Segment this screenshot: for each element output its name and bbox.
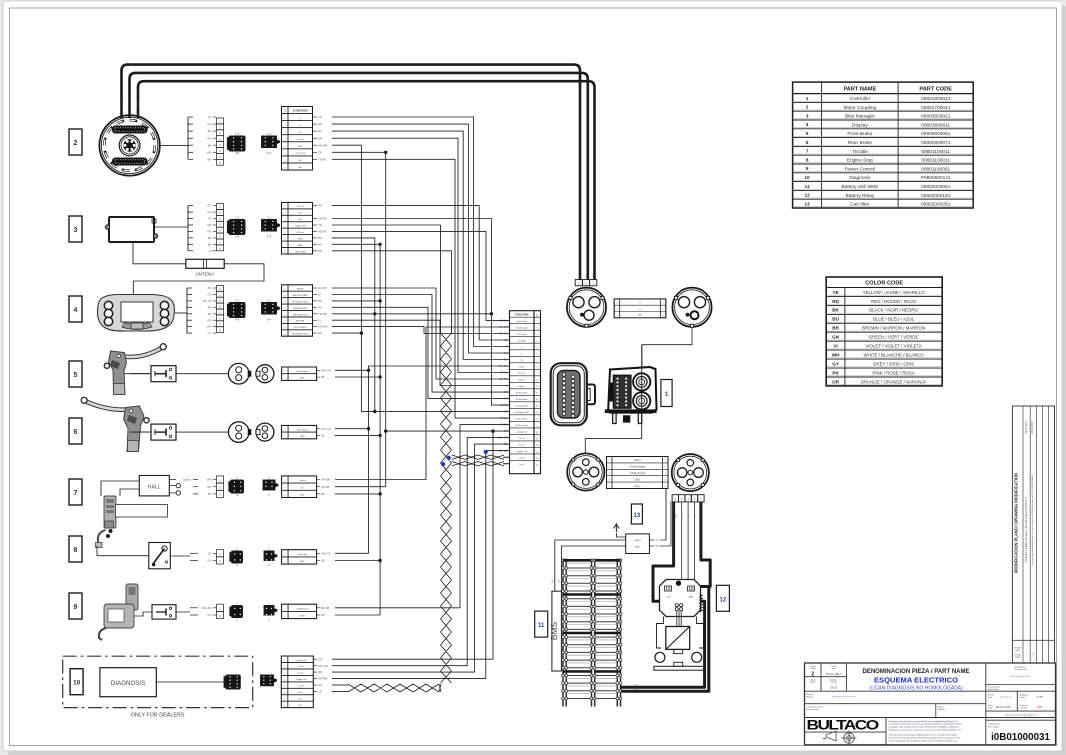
svg-text:Brake: Brake	[519, 367, 525, 369]
svg-text:4: 4	[74, 307, 78, 314]
item box 2	[69, 129, 82, 155]
svg-text:+OUT: +OUT	[666, 597, 672, 599]
connector 3B (8-pin male)	[262, 220, 280, 232]
wire BK item4 row8	[332, 332, 361, 334]
svg-text:OR: OR	[318, 136, 322, 140]
svg-text:+BAT: +BAT	[688, 596, 694, 599]
svg-text:BLUE / BLEU / AZUL: BLUE / BLEU / AZUL	[873, 317, 915, 322]
svg-text:N/C: N/C	[298, 160, 302, 162]
svg-text:18: 18	[536, 432, 538, 434]
svg-text:GN: GN	[207, 559, 211, 563]
svg-text:P0806500141: P0806500141	[921, 175, 951, 181]
svg-text:00802000061: 00802000061	[921, 184, 951, 190]
function table item 9	[282, 604, 317, 618]
svg-text:4: 4	[806, 122, 809, 127]
svg-text:YE: YE	[833, 290, 839, 295]
svg-text:GN: GN	[688, 514, 690, 518]
can filter wires left loop	[555, 540, 626, 591]
svg-text:00801700041: 00801700041	[921, 105, 951, 111]
wire color labels item 7	[317, 479, 320, 481]
svg-text:Out 66V: Out 66V	[518, 340, 526, 343]
svg-text:12: 12	[805, 193, 811, 198]
svg-text:GND: GND	[300, 495, 305, 497]
svg-text:OR-BK: OR-BK	[500, 372, 508, 375]
svg-text:GND: GND	[300, 616, 305, 618]
svg-text:12: 12	[720, 597, 727, 603]
parts table	[793, 82, 974, 208]
svg-text:Speed: Speed	[519, 380, 525, 382]
wire arrow to filter	[616, 533, 625, 537]
svg-text:BATTERY STATE: BATTERY STATE	[293, 294, 309, 297]
controller port 2	[633, 392, 650, 409]
svg-text:1: 1	[284, 371, 285, 373]
item box 10	[70, 669, 83, 695]
wire color labels item 8	[317, 552, 320, 554]
svg-text:U: U	[121, 103, 124, 105]
svg-text:2: 2	[284, 667, 285, 669]
wire BK bus3 item3	[332, 244, 380, 615]
title block	[805, 663, 1056, 745]
svg-text:COLOR CODE: COLOR CODE	[865, 281, 903, 287]
svg-text:Can H: Can H	[634, 460, 641, 462]
svg-text:3: 3	[665, 473, 666, 475]
svg-text:GN: GN	[504, 456, 508, 459]
svg-text:8: 8	[284, 334, 285, 336]
svg-text:YE-RD: YE-RD	[318, 217, 327, 221]
svg-text:PART NAME: PART NAME	[843, 86, 876, 92]
round connector battery B (5-pin)	[672, 454, 709, 491]
svg-text:Part number: Part number	[988, 725, 999, 728]
item box 9	[69, 593, 82, 619]
wire front brake	[335, 369, 369, 371]
function table item 4	[282, 285, 313, 336]
svg-text:Battery State: Battery State	[516, 392, 528, 395]
svg-text:Can H: Can H	[519, 458, 525, 460]
svg-text:BU-RD: BU-RD	[318, 286, 327, 290]
svg-text:2: 2	[284, 488, 285, 490]
color code table	[826, 277, 942, 386]
svg-text:- Supply Line: - Supply Line	[295, 679, 308, 681]
wire diag - supply	[332, 451, 510, 679]
svg-text:sociedad. Todo receptor de est: sociedad. Todo receptor de este document…	[889, 726, 960, 729]
svg-text:BU-RD: BU-RD	[500, 378, 508, 381]
relay coil terminals	[675, 604, 678, 607]
svg-text:5: 5	[74, 372, 78, 379]
svg-text:11: 11	[538, 623, 545, 629]
svg-text:1: 1	[284, 430, 285, 432]
round connector 6A (2-pin)	[228, 422, 249, 443]
wire	[332, 307, 510, 398]
svg-text:12: 12	[536, 393, 538, 395]
controller connector block	[613, 375, 631, 408]
pin strip item 3	[217, 204, 224, 210]
wire	[332, 320, 510, 385]
svg-text:00801100011: 00801100011	[921, 149, 950, 155]
svg-text:Drawn: Drawn	[1020, 696, 1025, 699]
svg-text:+ Supply Line: + Supply Line	[295, 660, 308, 662]
item box 4	[69, 296, 82, 322]
svg-text:+ Power Supply: + Power Supply	[629, 466, 646, 469]
svg-text:1: 1	[609, 460, 610, 462]
relay body (item 12)	[660, 580, 701, 617]
connector 8A (2-pin female)	[232, 551, 243, 563]
svg-text:GN: GN	[832, 335, 840, 340]
svg-text:8 4: 8 4	[267, 318, 271, 322]
svg-text:BU-BK: BU-BK	[321, 606, 330, 610]
wire can high item3	[332, 251, 452, 333]
svg-text:PW CONTROL: PW CONTROL	[294, 327, 307, 329]
wire BK item4 join bus	[332, 300, 380, 302]
item box 8	[69, 536, 82, 562]
svg-text:OR: OR	[318, 249, 322, 253]
svg-text:00802000281: 00802000281	[921, 202, 951, 208]
svg-text:BK: BK	[208, 236, 212, 240]
svg-text:YE-RD: YE-RD	[500, 404, 508, 407]
svg-text:7: 7	[284, 160, 285, 162]
antena box	[186, 259, 224, 268]
svg-text:00803600011: 00803600011	[921, 122, 950, 128]
svg-text:WH-BK: WH-BK	[499, 326, 508, 329]
wire engine stop	[335, 552, 369, 554]
svg-text:2: 2	[616, 309, 617, 311]
svg-text:RD: RD	[207, 204, 211, 208]
svg-text:Date: Date	[988, 707, 992, 710]
svg-text:Pw Control: Pw Control	[517, 333, 527, 336]
wire	[332, 124, 510, 353]
svg-text:12V out: 12V out	[296, 231, 304, 234]
round connector battery A (5-pin)	[567, 453, 604, 490]
wire bus BK item2	[332, 145, 361, 411]
svg-text:11: 11	[805, 184, 810, 189]
svg-text:PW SUPPLY 12V: PW SUPPLY 12V	[293, 314, 308, 316]
connector 7B (3-pin male)	[263, 480, 278, 490]
svg-text:not be released to others with: not be released to others without writte…	[889, 739, 959, 742]
svg-text:YE: YE	[318, 115, 322, 119]
svg-text:4: 4	[284, 226, 285, 228]
wire throttle GND	[335, 493, 380, 495]
wire color labels item 2	[313, 116, 318, 118]
svg-text:1: 1	[284, 118, 285, 120]
svg-text:17: 17	[536, 425, 538, 427]
connector 2B (8-pin male)	[262, 136, 280, 148]
svg-text:Battery Relay: Battery Relay	[846, 193, 875, 199]
svg-text:BR: BR	[208, 157, 212, 161]
svg-text:N/C: N/C	[298, 167, 302, 169]
svg-text:2: 2	[284, 616, 285, 618]
pin strip item 4	[217, 285, 224, 291]
svg-text:7: 7	[537, 360, 538, 362]
svg-text:El presente documento es propi: El presente documento es propiedad de la…	[889, 720, 960, 723]
svg-text:4 8: 4 8	[235, 318, 239, 322]
svg-text:ANTENA: ANTENA	[196, 272, 216, 277]
round connector 5B (2-pin)	[256, 365, 274, 383]
svg-text:Motor Temp: Motor Temp	[516, 418, 527, 421]
svg-text:FAILURE: FAILURE	[296, 320, 305, 323]
svg-text:2: 2	[284, 436, 285, 438]
svg-text:1 3: 1 3	[235, 298, 239, 302]
wire	[332, 295, 510, 393]
3-pin strip motor phases	[575, 280, 582, 286]
contactor symbol	[666, 627, 690, 650]
svg-text:3: 3	[284, 132, 285, 134]
svg-text:8 4: 8 4	[267, 151, 271, 155]
svg-text:OR: OR	[504, 430, 508, 433]
controller port 1	[633, 373, 650, 390]
wire lever-switch	[130, 373, 151, 375]
svg-text:RD: RD	[207, 318, 211, 322]
svg-text:28-01-2017: 28-01-2017	[1030, 420, 1034, 434]
svg-text:date: date	[832, 667, 836, 670]
svg-text:10: 10	[536, 380, 538, 382]
wire front brake GND	[335, 376, 380, 378]
connector 10B (8-pin male)	[261, 675, 277, 686]
item box 1	[661, 380, 672, 407]
svg-text:00803600021: 00803600021	[921, 114, 951, 120]
function table item 8	[282, 550, 317, 564]
svg-text:RD: RD	[207, 136, 211, 140]
svg-text:N.C.: N.C.	[299, 699, 303, 701]
wire	[332, 131, 510, 359]
svg-text:YE: YE	[208, 551, 212, 555]
svg-text:GN: GN	[207, 210, 211, 214]
svg-text:09-01-2017: 09-01-2017	[996, 705, 1012, 709]
wire motor phase U (thick)	[122, 65, 581, 280]
svg-text:1 3: 1 3	[235, 132, 239, 136]
svg-text:PK: PK	[318, 305, 322, 309]
svg-text:VI: VI	[318, 318, 321, 322]
svg-text:BK: BK	[504, 411, 508, 414]
wire power control	[335, 425, 510, 608]
wire switch to connector	[176, 373, 228, 375]
svg-text:Battery with BMS: Battery with BMS	[842, 184, 879, 190]
svg-text:GN: GN	[318, 122, 322, 126]
projection symbol	[823, 731, 857, 746]
item box 6	[69, 418, 82, 444]
svg-text:WH-BU: WH-BU	[318, 325, 327, 329]
svg-text:30-01-2017: 30-01-2017	[826, 672, 842, 676]
wire switch to connector	[176, 431, 228, 433]
svg-text:Throttle signal: Throttle signal	[515, 327, 528, 330]
svg-text:Motor Coupling: Motor Coupling	[844, 105, 877, 111]
svg-text:1: 1	[537, 321, 538, 323]
svg-text:2: 2	[284, 125, 285, 127]
svg-text:Heat treatment: Heat treatment	[807, 708, 820, 711]
svg-text:4: 4	[665, 479, 666, 481]
function table item 6	[282, 425, 317, 438]
power control key (item 9)	[99, 584, 138, 640]
function table item 10	[281, 656, 313, 708]
wires strip to relay	[681, 502, 683, 580]
svg-text:00800900071: 00800900071	[921, 140, 951, 146]
svg-text:5: 5	[284, 232, 285, 234]
svg-text:CAN H: CAN H	[634, 539, 641, 542]
svg-text:2: 2	[811, 672, 814, 678]
svg-text:6: 6	[74, 429, 78, 436]
svg-text:2: 2	[284, 562, 285, 564]
bultaco logo	[807, 718, 880, 733]
wire	[332, 219, 510, 406]
svg-text:HALL: HALL	[148, 485, 161, 491]
svg-text:GND: GND	[298, 238, 303, 240]
svg-text:4: 4	[609, 479, 610, 481]
wire throttle 5V	[335, 486, 386, 488]
svg-text:BK: BK	[321, 559, 325, 563]
svg-text:3: 3	[616, 315, 617, 317]
svg-text:BU-BK: BU-BK	[500, 424, 508, 427]
svg-text:Display: Display	[852, 122, 868, 128]
svg-text:BK: BK	[208, 242, 212, 246]
function table item 5	[282, 367, 317, 380]
wire motor phase W (thick)	[138, 81, 595, 279]
svg-text:RD: RD	[207, 230, 211, 234]
wire diag + supply	[332, 431, 493, 659]
wire display to harness	[175, 312, 187, 314]
wire color labels item 5	[317, 369, 320, 371]
svg-text:distribucion a terceros sin el: distribucion a terceros sin el permiso p…	[889, 729, 963, 732]
diagnosis box	[100, 668, 156, 697]
relay heavy wire battery minus	[621, 588, 709, 691]
svg-text:WH-GN: WH-GN	[321, 427, 331, 431]
wire rear brake GND	[335, 434, 380, 436]
svg-text:OR: OR	[318, 150, 322, 154]
svg-text:3: 3	[74, 227, 78, 234]
svg-text:BU: BU	[208, 286, 212, 290]
svg-text:BROWN / MARRON / MARRON: BROWN / MARRON / MARRON	[862, 326, 925, 331]
svg-text:8 4: 8 4	[267, 235, 271, 239]
motor M (item 2)	[99, 115, 159, 175]
svg-text:1: 1	[284, 206, 285, 208]
wire controller to battery connector	[585, 439, 641, 453]
svg-text:5: 5	[665, 486, 666, 488]
svg-text:WH-GN: WH-GN	[499, 365, 508, 368]
svg-text:5: 5	[284, 686, 285, 688]
round connector motor A (3-pin)	[567, 288, 606, 327]
svg-text:Medicion: Medicion	[938, 709, 946, 711]
svg-text:VIOLET / VIOLET / VIOLETA: VIOLET / VIOLET / VIOLETA	[865, 344, 922, 349]
svg-text:BK: BK	[318, 242, 322, 246]
svg-text:7: 7	[74, 490, 78, 497]
svg-text:1: 1	[665, 460, 666, 462]
wire key to box	[134, 612, 152, 616]
round connector motor B (3-pin)	[672, 288, 711, 327]
svg-text:WH: WH	[207, 478, 212, 482]
svg-text:WH-OR: WH-OR	[318, 664, 328, 668]
can bus bottom braid	[348, 684, 441, 692]
svg-text:3: 3	[284, 495, 285, 497]
svg-text:SW Pw control: SW Pw control	[515, 424, 529, 427]
svg-text:1: 1	[616, 303, 617, 305]
svg-text:BK: BK	[318, 331, 322, 335]
svg-text:DENOMINACION PIEZA / PART NAME: DENOMINACION PIEZA / PART NAME	[862, 669, 969, 675]
wire bundle bracket	[187, 206, 189, 251]
svg-text:DATE: DATE	[1015, 656, 1020, 659]
brake lever (item 6)	[81, 397, 151, 451]
svg-text:GND: GND	[298, 146, 303, 148]
contactor terminals	[655, 652, 665, 662]
brake switch (item 6)	[151, 424, 176, 440]
wire manager to antena	[133, 242, 186, 264]
battery pack (item 11)	[562, 559, 564, 706]
svg-text:YE-RD: YE-RD	[318, 312, 327, 316]
svg-text:1: 1	[662, 303, 663, 305]
UVW table	[614, 299, 666, 318]
svg-text:Engine Stop: Engine Stop	[847, 158, 873, 164]
svg-text:+ Supply Line: + Supply Line	[516, 432, 529, 434]
svg-text:SPEED: SPEED	[297, 289, 304, 291]
svg-text:BK: BK	[321, 492, 325, 496]
svg-text:GND: GND	[300, 561, 305, 563]
wire through controller ports	[641, 345, 643, 439]
svg-text:2: 2	[806, 105, 809, 110]
svg-text:CAN L: CAN L	[635, 546, 642, 549]
svg-text:- Supply Line: - Supply Line	[516, 451, 529, 453]
svg-text:00800800091: 00800800091	[921, 131, 951, 137]
svg-text:RD: RD	[695, 514, 697, 518]
svg-text:10: 10	[73, 680, 81, 687]
svg-text:13: 13	[536, 399, 538, 401]
bike manager unit (item 3)	[109, 217, 154, 242]
svg-text:Codigo pieza: Codigo pieza	[988, 724, 1001, 726]
svg-text:GY: GY	[832, 361, 839, 366]
item box 7	[69, 479, 82, 505]
svg-text:WH-BK: WH-BK	[321, 478, 330, 482]
svg-text:CAN_HIGH: CAN_HIGH	[295, 250, 307, 253]
18-pin main connector	[551, 363, 587, 425]
svg-text:Throttle: Throttle	[852, 149, 869, 155]
svg-text:GN: GN	[207, 613, 211, 617]
svg-text:2: 2	[662, 309, 663, 311]
svg-text:2: 2	[609, 467, 610, 469]
wire YE-RD item4 join	[332, 313, 491, 315]
svg-text:DRIVING MODE: DRIVING MODE	[293, 308, 308, 310]
wire color labels item 10	[313, 658, 317, 660]
wire rear brake	[335, 428, 369, 430]
svg-text:BR: BR	[208, 305, 212, 309]
relay heavy wire + BAT top side	[696, 502, 711, 587]
svg-text:RD: RD	[318, 204, 322, 208]
connector 7A (3-pin female)	[231, 480, 244, 493]
svg-text:1: 1	[284, 660, 285, 662]
svg-text:WH: WH	[207, 150, 212, 154]
svg-text:5: 5	[609, 486, 610, 488]
svg-text:RD: RD	[634, 685, 638, 687]
svg-text:T-Line: T-Line	[298, 666, 304, 668]
svg-text:BR: BR	[504, 443, 508, 446]
svg-text:19: 19	[536, 438, 538, 440]
svg-text:16: 16	[536, 419, 538, 421]
svg-text:6: 6	[537, 354, 538, 356]
svg-text:2: 2	[284, 378, 285, 380]
svg-text:+ Relay Supply: + Relay Supply	[629, 473, 645, 475]
pin strip item 2	[217, 118, 224, 124]
svg-text:3 1: 3 1	[267, 298, 271, 302]
svg-text:Signal: Signal	[299, 480, 306, 482]
svg-text:Pw Supply GND: Pw Supply GND	[514, 412, 529, 414]
svg-text:Can bus diagnosis mod ifica ci: Can bus diagnosis mod ifica cion s/ele m…	[1031, 474, 1034, 566]
can filter box (item 13)	[626, 534, 650, 554]
svg-text:Power Control: Power Control	[845, 166, 875, 172]
connector 10A (8-pin female)	[226, 675, 241, 689]
svg-text:+5V out: +5V out	[296, 138, 304, 141]
svg-text:PW SUPPLY GND: PW SUPPLY GND	[292, 301, 308, 303]
svg-text:BK: BK	[208, 492, 212, 496]
svg-text:ECMD: ECMD	[1037, 697, 1044, 699]
svg-text:GY: GY	[318, 293, 322, 297]
svg-text:00802000181: 00802000181	[921, 193, 951, 199]
svg-text:N.C.: N.C.	[299, 705, 303, 707]
svg-text:Failure: Failure	[519, 386, 526, 388]
connector 9B (2-pin male)	[264, 606, 277, 616]
